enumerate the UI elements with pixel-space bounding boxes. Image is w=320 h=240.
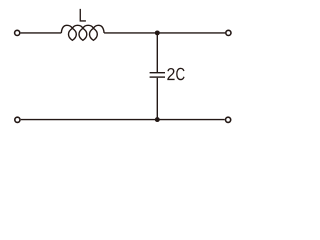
wire (capacitor bottom lead) xyxy=(156,78,158,120)
terminal (top-right port) xyxy=(226,30,231,35)
inductor L (coil humps) xyxy=(61,25,104,33)
inductor L (loop petal 3) xyxy=(90,28,98,40)
wire (top-right: inductor to terminal) xyxy=(104,32,225,34)
capacitor 2C (bottom plate) xyxy=(150,76,165,78)
label 2C (capacitor value): digit 2 xyxy=(167,68,174,80)
label L (inductor value) xyxy=(80,9,86,22)
wire (top-left: terminal to inductor) xyxy=(21,32,62,34)
terminal (bottom-left port) xyxy=(15,117,20,122)
wire (bottom rail) xyxy=(21,119,225,121)
inductor L (loop petal 1) xyxy=(69,28,77,40)
capacitor 2C (top plate) xyxy=(150,72,165,74)
wire (capacitor top lead) xyxy=(156,33,158,72)
terminal (bottom-right port) xyxy=(226,117,231,122)
node (top junction dot) xyxy=(155,30,160,35)
inductor L (loop petal 2) xyxy=(79,28,87,40)
terminal (top-left port) xyxy=(15,30,20,35)
node (bottom junction dot) xyxy=(155,117,160,122)
label 2C (capacitor value): letter C xyxy=(176,68,184,81)
